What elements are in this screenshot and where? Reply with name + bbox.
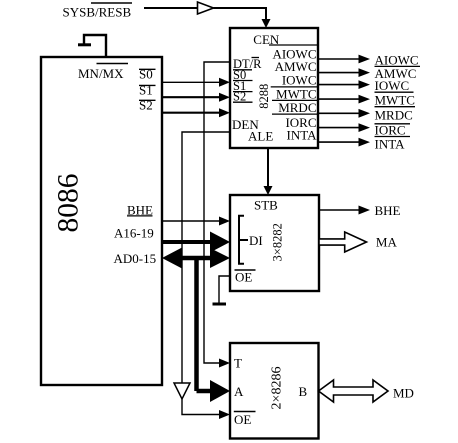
wire BHE to 8282 [162,217,230,226]
bus A16-19 to 8282 [162,232,230,253]
transceiver U4 8286 block [230,343,319,439]
svg-text:MN/MX: MN/MX [78,66,124,81]
wire S0 [162,78,230,87]
svg-text:MD: MD [393,386,414,401]
wire IORC out [318,123,370,132]
svg-text:INTA: INTA [375,136,406,151]
svg-text:MRDC: MRDC [278,100,316,115]
svg-text:S2: S2 [233,90,246,104]
wire DEN to inverter G2 [182,132,230,383]
pin label S2 (8086) [139,98,156,113]
svg-text:MRDC: MRDC [375,107,413,122]
wire MWTC out [318,95,370,104]
svg-text:IOWC: IOWC [375,78,410,93]
net SYSB/RESB label [63,3,133,20]
svg-text:8086: 8086 [53,174,85,233]
CPU U1 8086 block [41,57,162,385]
net label AIOWC [375,52,421,67]
pin label OE (8286) [234,412,256,428]
pin label BHE (8086) [127,203,153,218]
wire bracket to DI [239,239,248,241]
svg-text:BHE: BHE [375,203,401,218]
svg-text:MWTC: MWTC [375,93,415,108]
svg-text:ALE: ALE [248,129,273,144]
net label MWTC [375,93,416,108]
svg-text:SYSB/RESB: SYSB/RESB [63,5,132,20]
pin label S0 (8086) [139,67,156,82]
svg-text:A16-19: A16-19 [114,225,154,240]
DI input bracket [239,216,244,264]
inverter G2 [174,383,190,399]
svg-text:DI: DI [249,233,263,248]
svg-text:INTA: INTA [286,127,317,142]
pin label MWTC (inside) [272,86,318,101]
bus AD0-15 vertical drop to 8286 [197,256,231,402]
buffer G1 [198,2,214,14]
net label IORC [375,123,411,138]
wire INTA out [318,138,370,147]
svg-text:T: T [234,356,242,371]
svg-text:MA: MA [376,235,398,250]
net label IOWC [375,78,414,93]
pin label S1 (8288) [233,79,253,93]
wire IOWC out [318,80,370,89]
wire AMWC out [318,68,370,77]
wire S2 [162,108,230,117]
svg-text:B: B [299,384,308,399]
bus AD0-15 (bidirectional) [162,248,230,269]
svg-text:3×8282: 3×8282 [270,223,284,261]
pin label OE (8282) [235,269,256,284]
wire DT/R to 8286 T [204,62,230,368]
wire inverter to 8286 OE [182,399,230,419]
ground at MN/MX pin [78,35,106,57]
wire buffer G1 to 8288 top [214,8,267,20]
pin label DT/R [233,57,262,71]
svg-text:STB: STB [254,198,278,213]
svg-text:IORC: IORC [375,123,406,138]
svg-text:A: A [234,384,244,399]
bus MD double open arrow [319,380,389,402]
pin label S1 (8086) [139,83,156,98]
pin label S2 (8288) [233,90,253,104]
ground at 8282 OE [213,303,227,306]
pin label MRDC (inside) [272,100,318,115]
wire S1 [162,93,230,102]
bus MA open arrow [319,232,367,252]
latch U3 8282 block [230,195,319,291]
svg-text:OE: OE [234,412,251,427]
svg-text:2×8286: 2×8286 [270,367,285,410]
pin label IOWC (inside) [271,73,318,88]
pin label MN/MX [78,64,128,82]
svg-text:AIOWC: AIOWC [375,52,419,67]
svg-text:AD0-15: AD0-15 [114,251,157,266]
wire ALE to 8282 STB [264,148,273,195]
wire MRDC out [318,109,370,118]
svg-text:8288: 8288 [257,84,271,109]
wire AIOWC out [318,55,370,64]
bus controller U2 8288 block [230,28,318,148]
svg-text:OE: OE [235,269,252,284]
pin label AIOWC (inside) [269,45,318,62]
pin label S0 (8288) [233,68,253,82]
wire OE to ground [219,276,230,303]
wire BHE out [319,206,370,215]
wire SYSB/RESB to buffer G1 [144,7,198,9]
